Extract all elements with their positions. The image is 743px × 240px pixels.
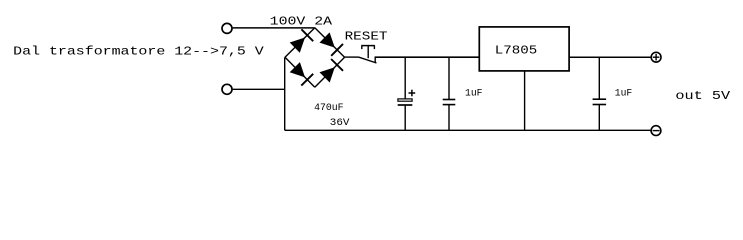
svg-text:470uF: 470uF <box>314 103 344 114</box>
switch SW1 (RESET push-button) <box>359 46 377 63</box>
output terminal minus <box>651 126 661 136</box>
diode D3 (bridge left-bottom edge) <box>285 57 315 87</box>
diode D2 (bridge top-right edge) <box>315 28 345 58</box>
wire: regulator ground pin to bottom rail <box>524 71 526 130</box>
capacitor C2 1uF (input side) <box>443 57 456 130</box>
bottom rail wire (minus) <box>285 129 651 131</box>
wire: top AC input to bridge top corner <box>233 27 315 29</box>
svg-text:36V: 36V <box>330 118 350 129</box>
wire: bridge right corner to switch left contact <box>345 56 359 58</box>
output terminal plus <box>651 52 661 62</box>
wire: bridge left corner down to bottom rail <box>284 57 286 130</box>
capacitor C3 1uF (output side) <box>593 57 607 130</box>
svg-text:1uF: 1uF <box>615 88 632 99</box>
svg-text:1uF: 1uF <box>465 88 483 99</box>
input terminal J2 (bottom) <box>222 84 232 94</box>
svg-text:Dal trasformatore 12-->7,5 V: Dal trasformatore 12-->7,5 V <box>13 45 264 59</box>
wire: bottom AC input to left corner vertical <box>233 88 285 90</box>
svg-text:RESET: RESET <box>345 29 388 43</box>
diode D4 (bridge bottom-right edge) <box>315 57 345 87</box>
svg-text:L7805: L7805 <box>495 44 537 58</box>
input terminal J1 (top) <box>222 23 232 33</box>
capacitor C1 470uF electrolytic <box>398 57 416 130</box>
wire: switch right contact to regulator input <box>375 56 479 58</box>
svg-text:out 5V: out 5V <box>675 89 731 103</box>
regulator U1 L7805 <box>479 27 569 71</box>
diode D1 (bridge left-top edge) <box>285 28 315 58</box>
wire: regulator output to plus terminal <box>569 56 651 58</box>
svg-text:100V 2A: 100V 2A <box>270 15 333 29</box>
